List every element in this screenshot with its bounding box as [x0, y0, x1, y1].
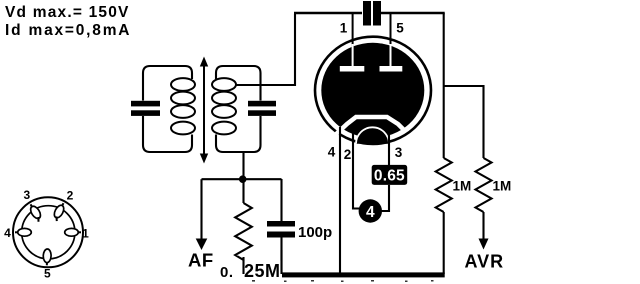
terminal 4 (filament supply): [359, 199, 382, 222]
cathode dome: [356, 127, 389, 144]
svg-text:3: 3: [395, 145, 403, 160]
wire branch to AVR resistor: [444, 86, 484, 158]
anode plate pin 1 (white bar): [340, 44, 365, 72]
svg-text:2: 2: [344, 147, 352, 162]
socket pin 1: [65, 228, 81, 236]
wire pin 2 down to terminal: [353, 126, 361, 209]
tube socket base outline (bottom view): [13, 197, 83, 267]
svg-text:1: 1: [82, 227, 89, 241]
resistor R1 0.25M: [235, 179, 252, 273]
svg-text:1: 1: [340, 21, 348, 36]
tube V1 envelope: [315, 37, 431, 144]
battery cell 0.65 V (black box): [372, 165, 408, 185]
svg-text:AVR: AVR: [465, 252, 505, 272]
wire R2 bottom to ground bus: [443, 212, 445, 274]
wire secondary bottom tap to junction: [242, 152, 244, 179]
svg-text:0.25M: 0.25M: [220, 261, 281, 281]
primary coil L1: [171, 78, 195, 134]
svg-text:Vd max.= 150V: Vd max.= 150V: [5, 4, 130, 21]
svg-text:5: 5: [44, 267, 51, 281]
anode plate pin 5 (white bar): [380, 44, 403, 72]
node junction dot: [239, 175, 247, 183]
label 0.25M: [220, 261, 282, 282]
svg-text:2: 2: [67, 189, 74, 203]
wire top rail right segment: [381, 12, 445, 15]
svg-text:Id max=0,8mA: Id max=0,8mA: [5, 22, 131, 39]
svg-text:4: 4: [328, 145, 336, 160]
wire top rail left segment: [294, 12, 362, 15]
wire pin 4 down to ground bus: [339, 127, 341, 273]
svg-text:3: 3: [23, 188, 30, 202]
svg-text:1M: 1M: [493, 179, 512, 194]
capacitor C1 (primary tuning cap): [131, 101, 160, 116]
socket pin 5: [43, 249, 51, 266]
wire anode rail down right side: [443, 13, 445, 158]
AVR arrow: [479, 212, 489, 250]
socket pin 3: [27, 202, 44, 222]
AF arrow: [196, 179, 208, 250]
IF transformer primary tuned circuit wiring: [143, 66, 192, 152]
tube inner dark fill: [321, 43, 424, 138]
svg-text:4: 4: [366, 204, 375, 221]
ground bus (bottom rail): [240, 272, 445, 277]
resistor R3 1M (right, AVR): [476, 158, 492, 212]
socket pin 4: [15, 228, 31, 236]
wire grid tap from L2 to grid riser: [236, 14, 295, 85]
capacitor C2 (secondary tuning cap): [248, 101, 276, 116]
wire R1 bottom lead over label: [242, 257, 244, 274]
adjustable core (double arrow): [200, 57, 208, 164]
scan noise specks under ground bus: [252, 280, 434, 282]
capacitor C4 100p: [267, 179, 295, 273]
wire pin 5 lead (outside tube): [390, 13, 392, 50]
svg-text:5: 5: [396, 21, 404, 36]
svg-text:AF: AF: [188, 250, 214, 271]
wire pin 1 lead (outside tube): [352, 13, 354, 50]
svg-text:1M: 1M: [453, 179, 472, 194]
svg-text:0.65: 0.65: [374, 168, 405, 185]
capacitor C3 (grid capacitor, top): [363, 1, 381, 26]
svg-text:100p: 100p: [298, 224, 332, 241]
wire battery to terminal: [380, 185, 389, 211]
wire junction horizontal: [202, 178, 282, 180]
wire pin 3 down to battery: [388, 126, 390, 165]
filament (white chevron): [333, 117, 404, 137]
IF transformer secondary tuned circuit wiring: [216, 66, 261, 152]
svg-text:4: 4: [4, 226, 11, 240]
secondary coil L2: [212, 78, 236, 134]
resistor R2 1M (left): [436, 158, 452, 212]
socket pin 2: [51, 201, 67, 221]
wire C4 bottom lead over label: [280, 250, 282, 274]
